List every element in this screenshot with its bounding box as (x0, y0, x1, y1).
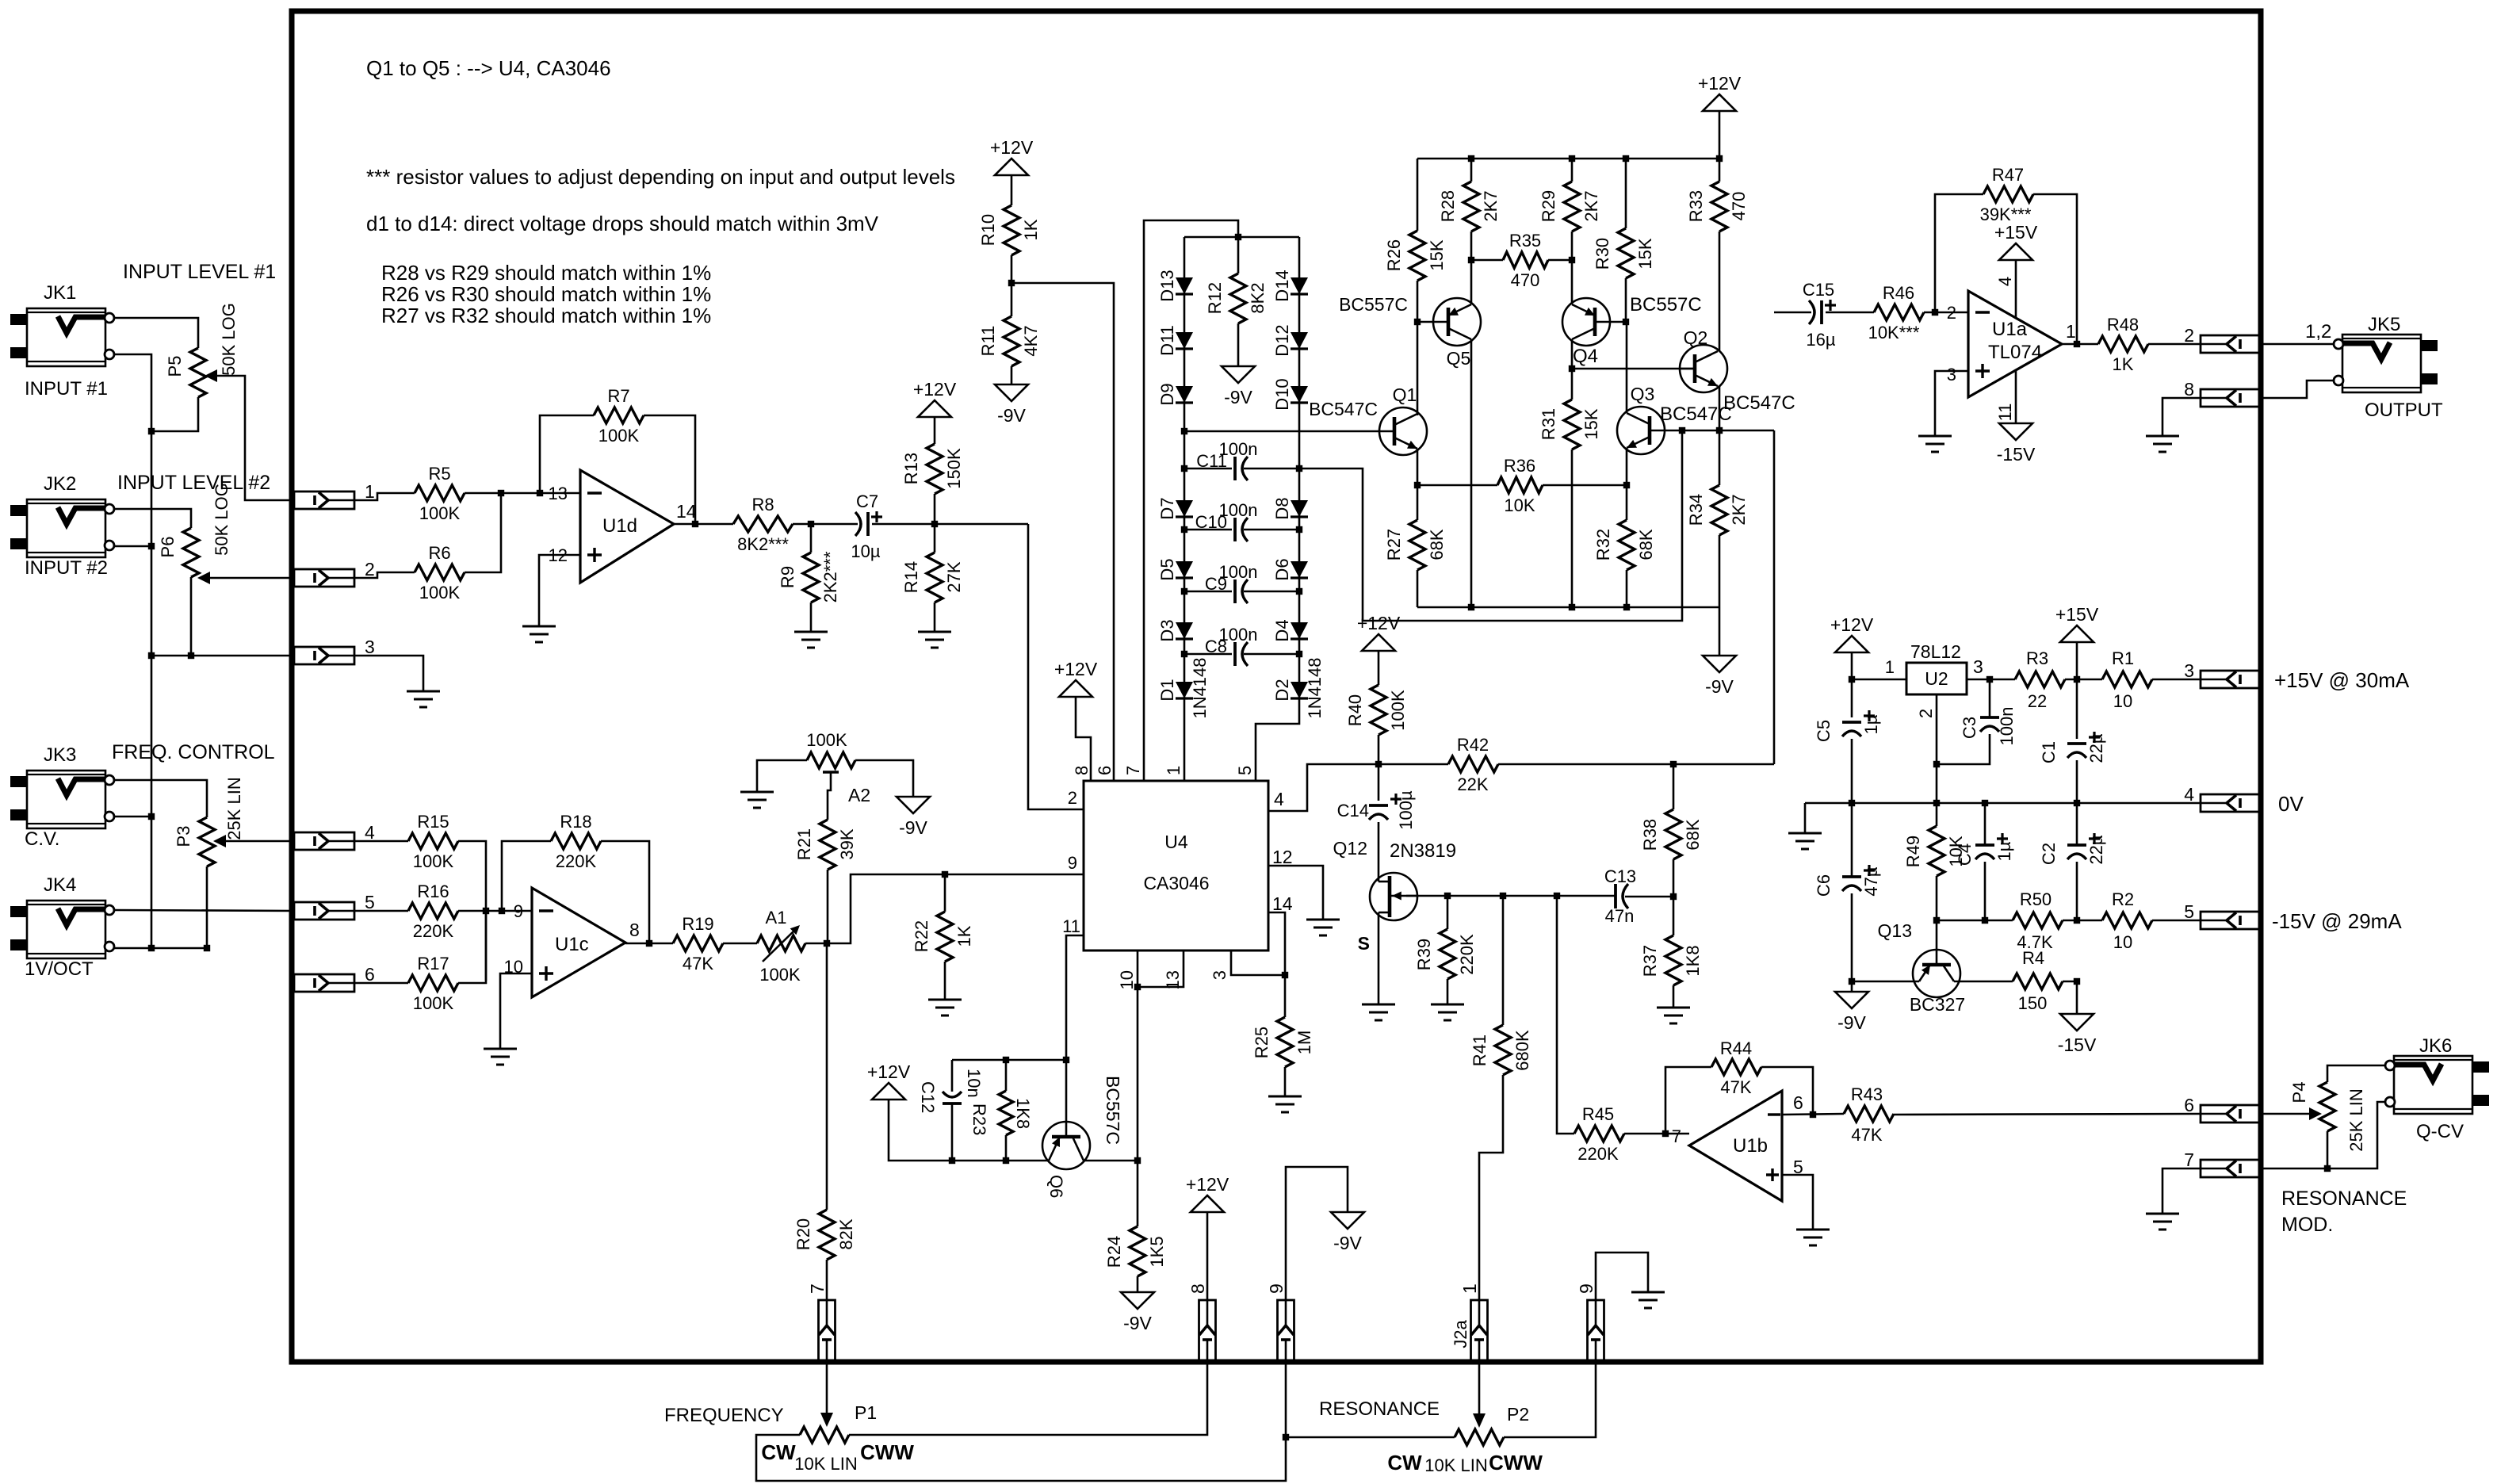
svg-text:9: 9 (514, 901, 523, 921)
svg-text:11: 11 (1995, 404, 2015, 422)
ground R25 (1268, 1096, 1302, 1112)
svg-text:R27: R27 (1384, 529, 1404, 560)
resistor R9 2K2*** (778, 524, 840, 632)
junction R12 top (1235, 234, 1241, 240)
wire Q1 emitter to R36 row (1417, 449, 1419, 520)
svg-text:U1c: U1c (555, 934, 589, 955)
junction R28/R35 (1468, 257, 1474, 263)
label FREQ. CONTROL (112, 741, 275, 763)
svg-text:100K: 100K (413, 993, 454, 1013)
svg-text:2: 2 (1947, 303, 1956, 323)
junction gate/R41 (1500, 893, 1506, 899)
label RESONANCE (1319, 1398, 1440, 1420)
svg-text:100n: 100n (1219, 562, 1258, 582)
connector pin 8 right (2184, 379, 2261, 407)
capacitor C1 22u (2039, 732, 2106, 845)
svg-text:R30: R30 (1593, 238, 1612, 270)
capacitor C9 100n (1184, 562, 1299, 603)
capacitor C15 16u (1774, 280, 1874, 350)
junction gate/R45 (1554, 893, 1560, 899)
svg-text:22K: 22K (1457, 775, 1488, 794)
svg-text:BC547C: BC547C (1723, 392, 1795, 414)
wire P6 wiper to connector 2 (208, 577, 294, 579)
-9V below C6 (1835, 992, 1868, 1033)
svg-text:R34: R34 (1686, 494, 1706, 526)
note: resistor values (366, 165, 955, 189)
svg-text:D11: D11 (1157, 325, 1177, 356)
svg-text:R10: R10 (978, 214, 998, 246)
svg-text:11: 11 (1062, 916, 1080, 936)
resistor R42 22K (1448, 735, 1774, 794)
svg-text:8: 8 (2184, 379, 2194, 400)
op-amp U1a TL074 (1947, 291, 2076, 397)
wire R7 to U1d output (644, 415, 695, 524)
diode D2 (1272, 657, 1325, 718)
wire P2 CW to connector 9 (1286, 1436, 1455, 1439)
svg-text:+15V: +15V (2055, 604, 2099, 625)
wire C11 row to Q3 loop (1299, 430, 1682, 621)
svg-text:1µ: 1µ (1861, 714, 1881, 734)
svg-text:5: 5 (1235, 766, 1255, 775)
svg-text:R27 vs R32 should match within: R27 vs R32 should match within 1% (381, 304, 711, 327)
junction pin9 node (483, 908, 505, 914)
resistor R33 470 (1686, 182, 1749, 351)
svg-text:100K: 100K (1388, 690, 1408, 731)
svg-text:A2: A2 (848, 785, 870, 805)
svg-text:-9V: -9V (997, 405, 1026, 426)
connector pin 5 (294, 892, 375, 920)
svg-text:D6: D6 (1272, 558, 1292, 580)
svg-text:1K8: 1K8 (1013, 1098, 1033, 1129)
resistor R39 220K (1414, 896, 1477, 1004)
connector pin 9b bottom (1576, 1283, 1604, 1360)
svg-text:-15V: -15V (2058, 1035, 2097, 1055)
svg-text:1K: 1K (954, 925, 974, 947)
0V rail (1805, 803, 2201, 833)
resistor R20 82K (793, 1210, 856, 1300)
svg-text:C2: C2 (2039, 843, 2059, 865)
svg-text:Q1 to Q5 : --> U4, CA3046: Q1 to Q5 : --> U4, CA3046 (366, 56, 611, 80)
resistor R22 1K (912, 874, 974, 1000)
svg-text:R41: R41 (1470, 1035, 1489, 1066)
resistor R44 47K feedback (1665, 1038, 1813, 1134)
svg-text:R36: R36 (1504, 456, 1535, 476)
capacitor C8 100n (1184, 625, 1299, 666)
wire connector 8 to JK5 ring (2261, 381, 2334, 398)
connector pin 8 bottom (1187, 1283, 1216, 1360)
wire Q1 collector up (1417, 414, 1419, 415)
capacitor C4 1u (1955, 803, 2014, 920)
svg-text:68K: 68K (1683, 819, 1703, 850)
junction Q6 rail C12/R23 (949, 1157, 1009, 1164)
svg-text:R8: R8 (751, 495, 774, 514)
jack JK1 (10, 282, 114, 400)
+12V at connector 8 bottom (1186, 1174, 1229, 1300)
svg-text:7: 7 (1672, 1126, 1681, 1146)
wire connector 7 to P1 wiper (820, 1360, 833, 1427)
-9V below R24 (1121, 1292, 1154, 1333)
svg-text:R28: R28 (1438, 190, 1458, 222)
svg-text:4: 4 (2184, 784, 2194, 805)
junction C7/R13/R14 (931, 521, 938, 527)
svg-text:A1: A1 (766, 908, 787, 927)
svg-text:2: 2 (1068, 788, 1077, 808)
svg-text:R46: R46 (1883, 283, 1914, 303)
svg-text:RESONANCE: RESONANCE (1319, 1398, 1440, 1420)
svg-text:JK2: JK2 (44, 473, 76, 495)
label 0V (2278, 792, 2304, 816)
svg-text:R39: R39 (1414, 939, 1434, 970)
svg-text:U4: U4 (1164, 832, 1188, 852)
svg-text:R35: R35 (1509, 231, 1541, 251)
svg-text:1M: 1M (1294, 1031, 1314, 1055)
jack JK6 Q-CV (2385, 1035, 2489, 1142)
svg-text:1N4148: 1N4148 (1190, 657, 1210, 718)
ground connector 8 (2146, 436, 2179, 452)
transistor Q1 BC547C (1309, 384, 1427, 455)
wire U1b pin 6 (1782, 1114, 1844, 1115)
resistor R32 68K (1593, 485, 1656, 607)
svg-text:R11: R11 (978, 326, 998, 357)
junction output/R18 (646, 940, 652, 947)
resistor R29 2K7 (1539, 159, 1601, 304)
diode D7 (1157, 497, 1193, 519)
resistor R1 10 (2102, 648, 2201, 711)
resistor R17 100K (408, 954, 458, 1013)
svg-text:1K5: 1K5 (1147, 1236, 1167, 1267)
jack JK4 (10, 874, 114, 980)
junction JK4 ring/bus (148, 945, 210, 951)
resistor R14 27K (901, 524, 964, 632)
svg-text:JK3: JK3 (44, 744, 76, 766)
svg-text:1V/OCT: 1V/OCT (25, 958, 94, 980)
bottom rail core (1417, 606, 1719, 609)
svg-text:+15V: +15V (1994, 222, 2038, 243)
capacitor C10 100n (1184, 500, 1299, 541)
junction bus/JK3 ring (148, 813, 155, 820)
svg-text:Q13: Q13 (1878, 920, 1912, 941)
diode D3 (1157, 619, 1193, 641)
junction P2 CW/connector 9 line (1283, 1434, 1289, 1440)
svg-text:100K: 100K (759, 965, 801, 985)
wire U2 pin 2 down (1916, 694, 1937, 826)
capacitor C12 10n (918, 1060, 984, 1161)
wire audio node to CA3046 pin 2 (1028, 524, 1084, 809)
connector pin 4 right (2184, 784, 2261, 812)
svg-text:1N4148: 1N4148 (1305, 657, 1325, 718)
wire Q3 base row to C15 drop (1665, 430, 1774, 432)
svg-text:R4: R4 (2022, 948, 2044, 968)
svg-text:6: 6 (1095, 766, 1115, 775)
wire Q13 emitter row (1852, 981, 1919, 983)
diode D6 (1272, 558, 1308, 580)
svg-text:10µ: 10µ (851, 541, 880, 561)
-9V below core (1703, 607, 1736, 697)
wire pin10/13 tie (1138, 950, 1183, 987)
svg-text:7: 7 (2184, 1149, 2194, 1170)
wire U1d pin 12 to ground (539, 555, 580, 626)
junction bus/JK2 ring (148, 543, 155, 549)
ground R39 (1431, 1004, 1464, 1020)
svg-text:47K: 47K (683, 954, 713, 973)
svg-text:9: 9 (1576, 1283, 1596, 1294)
svg-text:+12V: +12V (1698, 73, 1742, 94)
resistor R31 15K (1539, 369, 1601, 607)
potentiometer P6 50K LOG (158, 483, 231, 584)
ground R22 (928, 1000, 962, 1015)
C12/R23 top rail (952, 1059, 1066, 1061)
resistor R30 15K (1593, 159, 1655, 322)
svg-text:P4: P4 (2289, 1082, 2309, 1103)
svg-text:220K: 220K (1457, 934, 1477, 975)
resistor R47 39K*** feedback (1935, 165, 2077, 344)
svg-text:U1a: U1a (1992, 319, 2028, 340)
svg-text:INPUT LEVEL #1: INPUT LEVEL #1 (123, 261, 276, 283)
+12V at R10 (990, 137, 1034, 205)
wire R17 to pin9 node (458, 911, 486, 983)
svg-text:+12V: +12V (1186, 1174, 1229, 1195)
svg-text:68K: 68K (1427, 529, 1447, 560)
svg-text:6: 6 (1793, 1092, 1803, 1113)
potentiometer P1 10K LIN (761, 1402, 914, 1474)
svg-text:100n: 100n (1219, 439, 1258, 459)
+15V symbol (2055, 604, 2099, 739)
connector pin 7 bottom (807, 1283, 836, 1360)
svg-text:+12V: +12V (913, 379, 957, 400)
svg-text:15K: 15K (1635, 238, 1655, 269)
svg-text:+12V: +12V (1054, 659, 1098, 679)
capacitor C14 100u (1337, 790, 1416, 882)
junction C11 (1181, 465, 1302, 472)
resistor R27 68K (1384, 520, 1447, 607)
svg-text:BC327: BC327 (1910, 994, 1965, 1015)
wire U1d output to R8 (674, 523, 733, 526)
svg-text:Q4: Q4 (1573, 346, 1598, 367)
IC U4 CA3046 (1062, 766, 1293, 990)
jack JK5 OUTPUT (2334, 314, 2443, 421)
wire JK2 ring to bus (114, 545, 151, 548)
resistor R26 15K (1384, 159, 1447, 414)
svg-text:1: 1 (2066, 321, 2076, 342)
svg-text:7: 7 (807, 1283, 828, 1294)
capacitor C2 22u (2039, 833, 2106, 920)
label 1,2 (2305, 321, 2331, 342)
-15V unreg row (1937, 920, 2013, 922)
svg-text:220K: 220K (1577, 1144, 1619, 1164)
ground U1a pin 3 (1918, 436, 1952, 452)
svg-text:Q-CV: Q-CV (2416, 1121, 2464, 1142)
wire R8 to C7 (793, 523, 858, 526)
svg-text:2: 2 (365, 559, 375, 579)
wire Q3 collector up to R30 node (1626, 322, 1628, 413)
svg-text:R43: R43 (1851, 1084, 1883, 1104)
svg-text:3: 3 (2184, 660, 2194, 681)
capacitor C5 1u (1814, 710, 1881, 877)
junction R26/Q5 base (1414, 319, 1421, 325)
right diode column wire (1256, 237, 1299, 781)
resistor R36 10K (1417, 456, 1627, 515)
note: Q1 to Q5 mapping (366, 56, 611, 80)
svg-text:R21: R21 (794, 828, 814, 860)
resistor R8 8K2*** (733, 495, 793, 554)
svg-text:C4: C4 (1955, 843, 1975, 866)
junction +15V row (2074, 676, 2080, 683)
svg-text:P3: P3 (174, 826, 193, 847)
wire connector 8 to ground (2162, 398, 2201, 436)
+12V at Q6 emitter rail (867, 1061, 1049, 1161)
ground R37 (1657, 1008, 1690, 1023)
junction Q1 emitter/R36 (1414, 482, 1421, 488)
svg-text:BC547C: BC547C (1309, 399, 1378, 419)
resistor R15 100K (408, 812, 458, 871)
junction R25 top (1282, 972, 1288, 978)
-9V at connector 9 bottom (1286, 1167, 1364, 1300)
wire connector 7 to ground (2162, 1168, 2201, 1214)
junction 0V row (1849, 800, 2080, 806)
junction output/R47 (2074, 341, 2080, 347)
svg-text:2K7: 2K7 (1481, 190, 1501, 221)
svg-text:R23: R23 (969, 1103, 989, 1135)
svg-text:+12V: +12V (1830, 614, 1874, 635)
svg-text:78L12: 78L12 (1910, 641, 1961, 662)
svg-text:R16: R16 (417, 882, 449, 901)
wire Q12 gate row (1406, 895, 1616, 897)
svg-text:R9: R9 (778, 566, 797, 588)
trimmer A2 100K (806, 730, 870, 805)
svg-text:10K***: 10K*** (1868, 323, 1920, 342)
resistor R12 8K2 (1205, 237, 1268, 366)
svg-text:BC547C: BC547C (1660, 404, 1732, 425)
wire U1c pin 10 to ground (500, 973, 532, 1049)
wire pins 10/13 down to R24 (1137, 987, 1139, 1226)
ground Q12 (1362, 1004, 1395, 1020)
junction R38/C13/R37 (1670, 893, 1677, 900)
svg-text:220K: 220K (413, 921, 454, 941)
svg-text:22µ: 22µ (2086, 835, 2106, 864)
svg-text:47K: 47K (1720, 1077, 1751, 1097)
svg-text:4: 4 (365, 822, 375, 843)
wire P3 wiper to connector 4 (224, 840, 294, 843)
svg-text:150K: 150K (944, 448, 964, 489)
svg-text:D13: D13 (1157, 270, 1177, 301)
wire R19 to A1 (723, 943, 757, 945)
junction R45/R44 (1662, 1130, 1669, 1137)
junction Q4 collector/R31/Q2 base (1569, 365, 1575, 372)
svg-text:4: 4 (1995, 277, 2015, 286)
svg-text:BC557C: BC557C (1339, 294, 1408, 315)
resistor R49 10K (1903, 826, 1966, 950)
ground R9 (794, 632, 828, 648)
wire pin 14 to R25 (1268, 912, 1285, 975)
svg-text:100K: 100K (419, 503, 461, 523)
wire connector 2 to JK5 tip (2261, 343, 2334, 346)
svg-text:C14: C14 (1337, 801, 1369, 820)
ground U1c pin 10 (484, 1049, 517, 1065)
svg-text:39K: 39K (837, 828, 857, 859)
svg-text:100K: 100K (413, 851, 454, 871)
diode D8 (1272, 497, 1308, 519)
connector pin 1 (294, 481, 375, 509)
resistor R25 1M (1252, 975, 1314, 1096)
wire P3 bottom to JK4 ring row (206, 866, 208, 948)
ground at connector 3 (407, 691, 440, 707)
junction pin6/R44 (1810, 1111, 1816, 1118)
regulator U2 78L12 (1906, 641, 1967, 694)
svg-text:RESONANCE: RESONANCE (2281, 1188, 2407, 1210)
resistor R5 100K (415, 464, 465, 523)
-9V at A2 (897, 797, 930, 838)
svg-text:9: 9 (1068, 853, 1077, 873)
svg-text:U2: U2 (1925, 668, 1948, 689)
svg-text:C12: C12 (918, 1081, 938, 1113)
svg-text:10n: 10n (964, 1069, 984, 1098)
svg-text:4: 4 (1274, 789, 1284, 809)
svg-text:R5: R5 (428, 464, 450, 484)
svg-text:R33: R33 (1686, 190, 1706, 222)
wire Q12 source to ground (1378, 912, 1380, 1004)
wire U1a output to R48 (2062, 343, 2098, 346)
resistor R23 1K8 (969, 1060, 1033, 1161)
resistor R24 1K5 (1104, 1226, 1167, 1292)
svg-text:3: 3 (1973, 656, 1983, 677)
junction C8 (1181, 651, 1302, 657)
capacitor C11 100n (1184, 439, 1299, 480)
wire P4 top to JK6 tip (2327, 1065, 2385, 1082)
wire CA3046 pin 4 to R42 row (1268, 764, 1448, 811)
svg-text:R37: R37 (1640, 945, 1660, 977)
svg-text:25K LIN: 25K LIN (2346, 1088, 2366, 1152)
svg-text:8K2: 8K2 (1248, 282, 1268, 313)
connector pin 5 right (2184, 901, 2261, 929)
label INPUT LEVEL #2 (117, 472, 270, 494)
svg-text:1,2: 1,2 (2305, 321, 2331, 342)
+12V at CA3046 pin 8 (1054, 659, 1098, 781)
ground pin 12 (1306, 920, 1340, 935)
ground U1d pin 12 (522, 626, 556, 642)
transistor Q4 BC557C (1562, 294, 1702, 367)
svg-text:R17: R17 (417, 954, 449, 973)
diode D5 (1157, 558, 1193, 580)
junction Q3 emitter/R36 (1623, 482, 1630, 488)
capacitor C13 47n (1604, 866, 1673, 926)
svg-text:15K: 15K (1427, 239, 1447, 270)
junction rail R28 (1468, 155, 1474, 162)
svg-text:R20: R20 (793, 1218, 813, 1250)
svg-text:FREQUENCY: FREQUENCY (664, 1405, 784, 1426)
+12V at R13 (913, 379, 957, 444)
svg-text:14: 14 (676, 501, 697, 522)
svg-text:J2a: J2a (1451, 1320, 1470, 1348)
junction Q6/R24 (1134, 1157, 1141, 1164)
resistor R41 680K (1470, 896, 1532, 1300)
resistor R48 1K (2098, 315, 2201, 374)
label RESONANCE MOD. (2281, 1188, 2407, 1236)
svg-text:8K2***: 8K2*** (737, 534, 789, 554)
wire Q6 collector to R24 (1084, 1160, 1138, 1162)
-9V below R11 (995, 384, 1028, 426)
svg-text:150: 150 (2018, 993, 2048, 1013)
diode D13 (1157, 270, 1193, 301)
resistor R7 100K feedback (594, 386, 644, 446)
junction R10/R11 (1008, 280, 1015, 286)
wire bus row to connector 3 (151, 655, 294, 657)
svg-text:14: 14 (1272, 893, 1293, 914)
wire P2 CWW to connector 9b (1504, 1360, 1596, 1437)
svg-text:47n: 47n (1605, 906, 1635, 926)
-15V symbol bottom (2058, 981, 2097, 1055)
svg-text:INPUT #1: INPUT #1 (25, 378, 108, 400)
svg-text:8: 8 (1072, 766, 1092, 775)
